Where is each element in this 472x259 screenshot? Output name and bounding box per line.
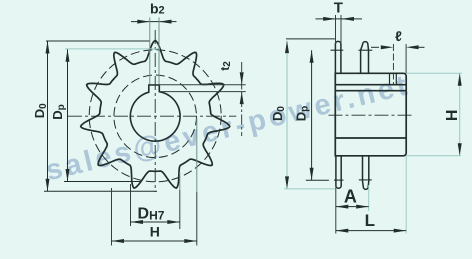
svg-text:ℓ: ℓ (395, 28, 402, 44)
svg-text:D0: D0 (32, 103, 49, 118)
svg-text:L: L (365, 211, 375, 230)
svg-text:A: A (344, 187, 357, 207)
svg-text:DH7: DH7 (138, 206, 165, 223)
svg-text:H: H (150, 224, 160, 240)
svg-text:H: H (444, 110, 461, 122)
svg-text:t2: t2 (218, 61, 233, 71)
svg-text:b2: b2 (150, 0, 165, 16)
svg-text:Dp: Dp (50, 104, 67, 120)
svg-text:T: T (334, 0, 343, 17)
